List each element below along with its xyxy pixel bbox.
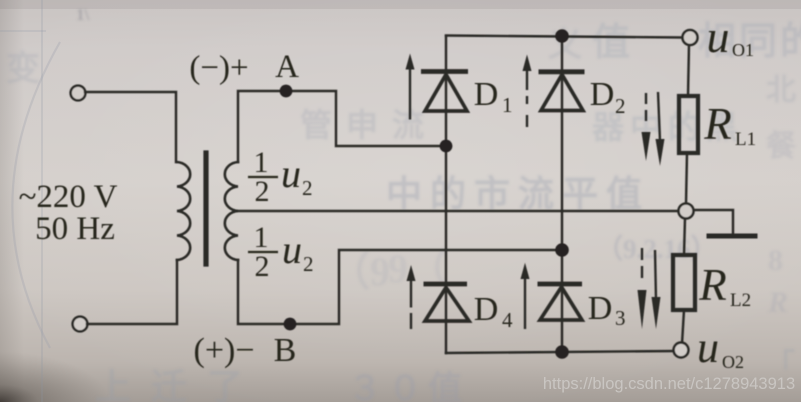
svg-text:R: R [703,99,732,149]
wire primary bottom [87,260,177,324]
output terminal u_O2 [674,343,689,358]
wire top rail [446,36,683,38]
svg-text:O1: O1 [732,40,754,60]
diode D1 [421,72,468,112]
current arrow at R_L1 (dashed, down) [642,93,651,161]
svg-text:3: 3 [615,306,626,330]
node A dot [280,85,293,98]
svg-text:2: 2 [302,176,313,200]
junction dot top rail D2 [555,29,569,43]
svg-text:D: D [590,76,615,113]
current arrow at R_L1 (solid, down) [656,92,665,166]
svg-text:(−)+: (−)+ [189,50,248,86]
svg-text:O2: O2 [722,352,744,372]
input terminal top [71,86,86,101]
wire D2 column [561,36,563,352]
svg-text:u: u [697,323,719,372]
output terminal u_O1 [683,30,698,45]
svg-text:D: D [474,76,499,113]
label 1/2 u2 upper [248,146,313,208]
junction dot B-D2D3 [555,243,569,257]
svg-text:管申流: 管申流 [300,107,438,143]
wire center tap to output mid node [238,210,679,212]
svg-text:8: 8 [768,244,783,277]
svg-text:R: R [767,286,788,319]
svg-text:2: 2 [255,175,270,208]
diode D4 [424,284,470,321]
svg-text:L1: L1 [735,129,756,150]
node B dot [284,318,297,331]
output mid terminal [679,204,694,219]
diode D2 [539,72,585,111]
current arrow at R_L2 (dashed, down) [638,248,647,329]
wire secondary bottom lead [238,250,562,324]
resistor R_L1 [679,96,698,153]
svg-text:L2: L2 [730,290,751,311]
svg-text:R: R [698,260,727,310]
svg-text:中的市流平值: 中的市流平值 [386,174,650,214]
wire bottom rail [446,351,675,353]
svg-text:变: 变 [6,50,40,88]
transformer primary winding [177,162,190,260]
svg-text:2: 2 [615,94,626,118]
wire secondary top lead [238,91,446,162]
svg-text:~220 V: ~220 V [19,179,118,215]
label 1/2 u2 lower [248,221,314,283]
current arrow at R_L2 (solid, down) [652,250,661,329]
current arrow i_D4 [407,265,416,329]
svg-text:2: 2 [303,252,314,276]
transformer core [203,153,208,264]
wire R_L2 to u_O2 [682,310,684,344]
svg-text:上迁了: 上迁了 [95,367,263,402]
svg-text:A: A [275,49,299,85]
wire R_L1 to mid node [686,153,687,204]
svg-text:D: D [474,291,499,328]
svg-text:u: u [282,227,302,272]
svg-text:2: 2 [255,250,270,283]
svg-text:北: 北 [766,74,796,107]
svg-text:50 Hz: 50 Hz [35,211,115,247]
svg-text:https://blog.csdn.net/c1278943: https://blog.csdn.net/c1278943913 [543,375,795,393]
junction dot bottom rail D3 [555,345,569,359]
ground [709,234,755,239]
wire primary top [85,92,176,162]
transformer secondary winding [225,162,238,260]
current arrow i_D2 (dashed) [523,55,532,128]
svg-text:３０值: ３０值 [348,370,468,402]
faint margin rule line [41,0,43,402]
wire D1 column [445,36,447,353]
junction dot A-D1 [440,140,453,153]
svg-text:(+)−: (+)− [194,332,255,369]
wire u_O1 stem [688,44,689,96]
faint bleed arc left [12,42,60,348]
wire ground branch [693,210,733,234]
current arrow i_D3 [521,263,530,329]
current arrow i_D1 [406,54,415,120]
diode D3 [538,284,583,320]
svg-text:u: u [707,11,730,62]
svg-text:1: 1 [502,93,513,117]
svg-text:1\: 1\ [76,5,90,24]
svg-text:u: u [281,151,301,196]
wire mid node to R_L2 [684,218,685,255]
svg-text:B: B [274,332,297,369]
svg-text:D: D [588,290,613,327]
resistor R_L2 [673,255,695,310]
svg-text:餐: 餐 [766,130,797,163]
svg-text:4: 4 [502,308,513,332]
svg-text:值: 值 [592,22,630,64]
input terminal bottom [73,317,88,332]
